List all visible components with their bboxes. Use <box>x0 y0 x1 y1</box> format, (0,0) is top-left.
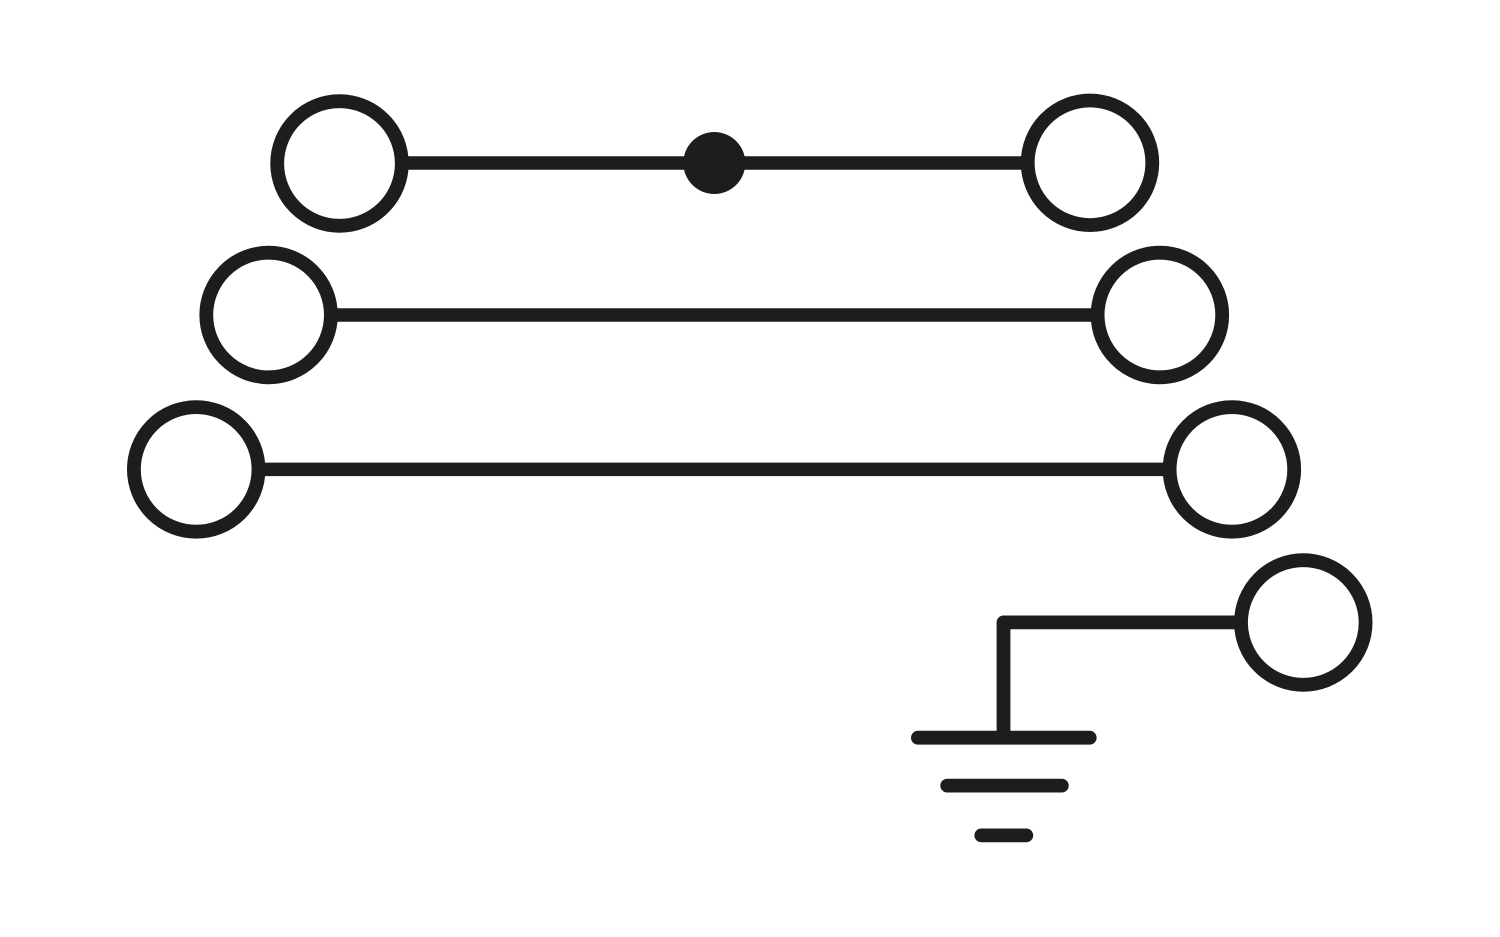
wire level 2 <box>269 308 1160 322</box>
wire level 3 <box>196 463 1232 477</box>
terminal circle, level 4 right (PE) <box>1241 560 1366 685</box>
terminal circle, level 3 right <box>1170 407 1295 532</box>
terminal circle, level 2 left <box>206 253 331 378</box>
ground (earth) symbol bar 3 <box>981 829 1026 843</box>
wire level 1 <box>340 156 1091 170</box>
ground (earth) symbol bar 2 <box>947 779 1062 793</box>
terminal circle, level 1 right <box>1028 101 1153 226</box>
ground (earth) symbol bar 1 <box>918 731 1090 745</box>
wire level 4 (PE), horizontal run and vertical riser <box>1004 622 1304 737</box>
terminal circle, level 1 left <box>277 101 402 226</box>
terminal circle, level 3 left <box>134 407 259 532</box>
junction node on level 1 <box>683 132 745 194</box>
terminal circle, level 2 right <box>1098 253 1223 378</box>
